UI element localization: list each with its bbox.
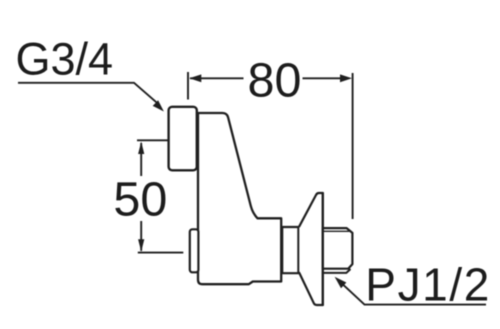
svg-text:80: 80: [248, 54, 302, 108]
leader line G3/4: [18, 83, 157, 103]
arrowhead leader G3/4: [153, 100, 164, 111]
dim 50: top extension line: [137, 139, 168, 141]
arrowhead dim 80 right: [340, 74, 352, 82]
thread PJ1/2 (male pipe thread): [323, 228, 353, 269]
arrowhead dim 80 left: [189, 74, 201, 82]
thread inner line top: [323, 230, 349, 232]
dim 50: bottom extension line: [138, 252, 184, 254]
arrowhead dim 50 top: [138, 142, 144, 155]
body (main offset casting): [193, 113, 281, 284]
svg-text:PJ1/2: PJ1/2: [365, 259, 491, 311]
arrowhead leader PJ1/2: [335, 277, 347, 288]
thread crest line bottom: [323, 270, 350, 273]
neck (small cylinder between arm and flange): [282, 227, 298, 273]
dim 80: dimension line left segment: [190, 77, 244, 79]
dim 50: dimension line bottom segment: [140, 221, 142, 251]
G3/4 union nut: [169, 107, 197, 171]
lower inlet boss: [190, 229, 199, 272]
leader line PJ1/2: [338, 280, 486, 305]
flange (wall escutcheon): [299, 193, 323, 305]
wall face line: [322, 193, 324, 305]
dim 80: dimension line right segment: [303, 77, 342, 79]
dim 50: dimension line top segment: [140, 143, 142, 176]
svg-text:G3/4: G3/4: [16, 34, 114, 85]
dim 80: left extension line: [187, 72, 189, 100]
dim 80: right extension line: [352, 73, 354, 219]
svg-text:50: 50: [113, 173, 167, 227]
arrowhead dim 50 bottom: [138, 239, 144, 252]
